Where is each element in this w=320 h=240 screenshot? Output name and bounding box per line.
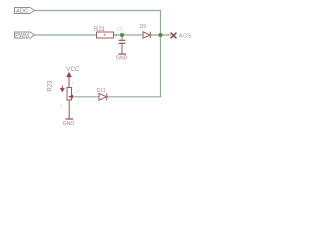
svg-text:ADC: ADC: [16, 9, 28, 15]
node junction dot at capacitor: [120, 33, 124, 37]
svg-text:2: 2: [60, 104, 62, 108]
flag ADC: [15, 8, 35, 14]
svg-text:VCC: VCC: [66, 67, 80, 73]
diode D11: [99, 93, 107, 100]
svg-text:D9: D9: [140, 24, 147, 30]
diode D9: [143, 32, 150, 38]
wire R23 bottom pin to ground: [68, 100, 70, 119]
potentiometer wiper arrowhead: [68, 95, 73, 99]
pin AO5 X marker: [171, 33, 177, 39]
wire D11 cathode to right vertical: [107, 96, 161, 98]
svg-text:1: 1: [71, 81, 73, 85]
svg-text:GND: GND: [63, 121, 75, 127]
wire D9 cathode to AO5 pin: [151, 34, 172, 36]
svg-text:C9: C9: [117, 27, 124, 33]
svg-text:AO5: AO5: [179, 33, 192, 39]
wire capacitor stub from junction: [121, 35, 123, 40]
svg-text:D11: D11: [97, 88, 106, 94]
ground GND below R23: [66, 118, 74, 120]
resistor R21: [97, 32, 114, 38]
svg-text:3: 3: [77, 90, 79, 94]
svg-text:GND: GND: [116, 56, 128, 62]
svg-text:R21: R21: [94, 27, 106, 33]
capacitor C9: [119, 40, 126, 43]
svg-text:PWM: PWM: [15, 33, 29, 39]
svg-text:R23: R23: [48, 80, 54, 92]
wire R23 wiper to D11: [73, 96, 100, 98]
wire ADC net top horizontal and right vertical: [35, 11, 161, 97]
potentiometer adjust arrow: [61, 86, 64, 92]
potentiometer R23: [67, 88, 72, 101]
flag PWM: [15, 32, 35, 38]
wire PWM flag to R21: [34, 34, 97, 36]
node junction dot at AO5 net: [159, 33, 163, 37]
pin stub R21 pin 2: [115, 34, 117, 36]
wire R21 to D9 anode: [114, 34, 144, 36]
ground GND below capacitor: [119, 53, 127, 55]
wire capacitor to ground: [121, 44, 123, 54]
